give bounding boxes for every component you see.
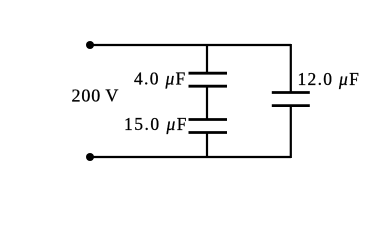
wire middle branch between C1 and C2: [206, 87, 208, 119]
capacitor C2 15.0 uF: [189, 120, 228, 133]
svg-text:4.0 μF: 4.0 μF: [134, 69, 187, 89]
wire middle branch top stub: [206, 44, 208, 73]
capacitor C1 4.0 uF: [189, 73, 228, 86]
svg-text:200 V: 200 V: [72, 86, 119, 106]
svg-text:12.0 μF: 12.0 μF: [298, 69, 361, 89]
bottom wire: [90, 156, 291, 158]
node top-left terminal dot: [86, 41, 94, 49]
wire right branch bottom stub: [290, 106, 292, 158]
capacitor C3 12.0 uF: [272, 93, 310, 106]
wire middle branch bottom stub: [206, 133, 208, 158]
wire right branch top stub: [290, 44, 292, 92]
top wire: [90, 44, 291, 46]
svg-text:15.0 μF: 15.0 μF: [124, 114, 188, 134]
node bottom-left terminal dot: [86, 153, 94, 161]
